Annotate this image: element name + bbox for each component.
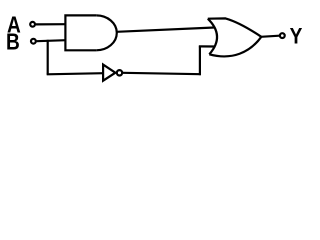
wire A to AND gate (36, 23, 66, 25)
wire B to AND gate (37, 40, 66, 41)
wire AND output to OR input (117, 28, 215, 32)
input terminal B (31, 39, 36, 44)
wire riser to OR input (199, 45, 215, 47)
svg-text:B: B (6, 30, 20, 55)
wire OR output (261, 36, 280, 37)
inverter NOT gate (103, 65, 115, 81)
svg-text:Y: Y (290, 24, 303, 49)
OR gate (208, 18, 261, 56)
inverter bubble (117, 70, 122, 75)
input terminal A (30, 22, 35, 27)
output terminal Y (280, 33, 285, 38)
wire B branch down (47, 40, 49, 75)
wire bottom to inverter (47, 73, 104, 74)
wire riser up (199, 46, 201, 76)
AND gate (65, 15, 116, 50)
wire inverter output to riser (123, 73, 201, 74)
